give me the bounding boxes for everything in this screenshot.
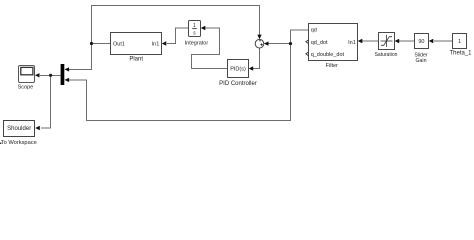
svg-text:In1: In1 bbox=[152, 41, 160, 47]
svg-text:Theta_1: Theta_1 bbox=[449, 51, 472, 57]
svg-text:1: 1 bbox=[193, 23, 196, 29]
svg-text:Saturation: Saturation bbox=[375, 52, 398, 58]
svg-text:In1: In1 bbox=[348, 40, 356, 46]
svg-text:1: 1 bbox=[458, 39, 461, 45]
svg-text:Shoulder: Shoulder bbox=[7, 126, 31, 132]
svg-text:q_double_dot: q_double_dot bbox=[311, 52, 345, 58]
svg-text:To Workspace: To Workspace bbox=[1, 140, 37, 145]
svg-text:Out1: Out1 bbox=[113, 41, 125, 47]
svg-text:PID(s): PID(s) bbox=[230, 67, 246, 73]
svg-text:Plant: Plant bbox=[129, 57, 143, 63]
svg-text:Integrator: Integrator bbox=[185, 40, 209, 46]
svg-text:Gain: Gain bbox=[416, 58, 427, 64]
svg-text:qd_dot: qd_dot bbox=[311, 40, 328, 46]
svg-text:90: 90 bbox=[418, 39, 424, 45]
svg-text:Filter: Filter bbox=[326, 63, 338, 69]
svg-text:PID Controller: PID Controller bbox=[219, 81, 257, 87]
svg-text:Scope: Scope bbox=[18, 85, 34, 91]
svg-text:qd: qd bbox=[311, 28, 317, 34]
